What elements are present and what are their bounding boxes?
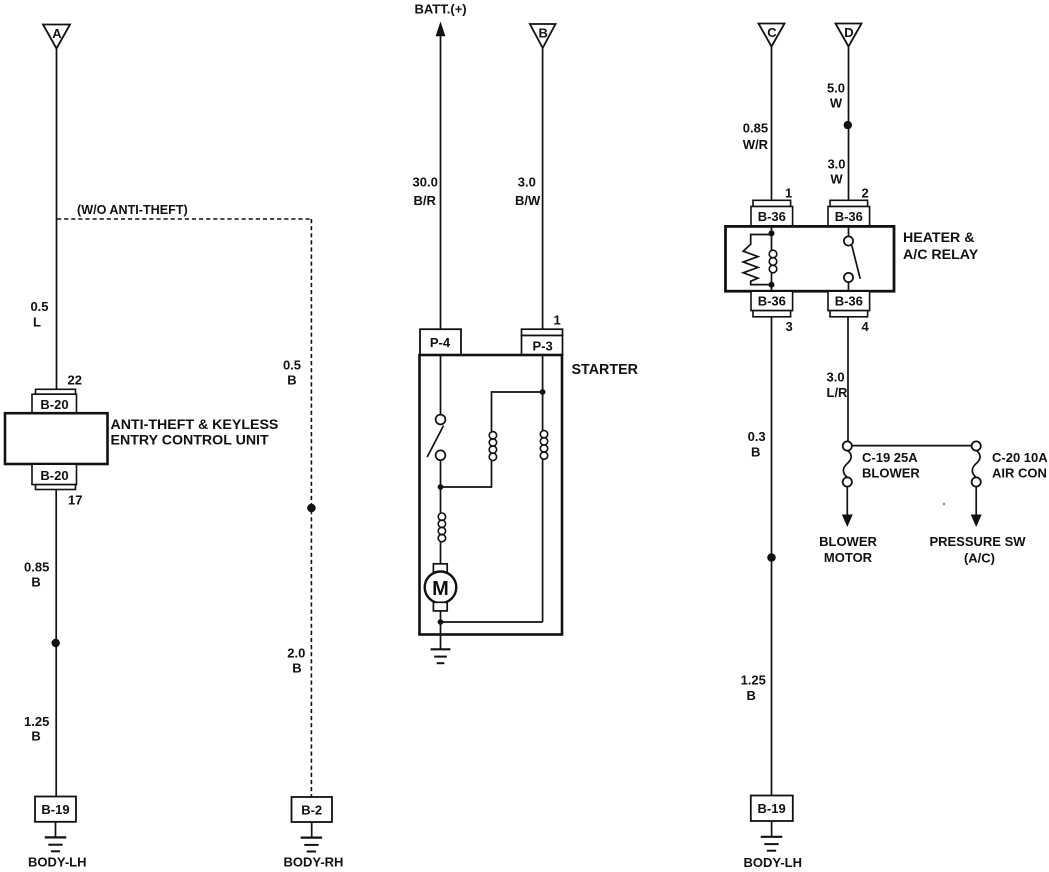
svg-text:0.5: 0.5 bbox=[283, 357, 301, 372]
svg-text:BODY-LH: BODY-LH bbox=[28, 855, 87, 870]
wire P-3 down to pull coil bbox=[542, 355, 544, 431]
connector B-36 (bottom left) bbox=[751, 291, 793, 317]
junction dot wire size change bbox=[844, 121, 852, 129]
relay switch blade bbox=[852, 245, 860, 278]
svg-text:B: B bbox=[292, 661, 301, 676]
svg-text:2: 2 bbox=[862, 186, 869, 201]
wire hold coil up and across to P-3 wire bbox=[492, 392, 543, 432]
wire from connector B down to P-3 bbox=[542, 48, 544, 329]
connector D (triangle) bbox=[836, 24, 862, 47]
svg-text:BODY-LH: BODY-LH bbox=[744, 855, 803, 870]
svg-text:HEATER &: HEATER & bbox=[903, 230, 974, 246]
svg-text:B-36: B-36 bbox=[835, 209, 863, 224]
starter series coil bbox=[438, 513, 445, 542]
arrow to blower motor bbox=[842, 515, 853, 528]
wire label 30.0 B/R bbox=[413, 175, 438, 209]
wire relay coil to B-36 bottom bbox=[771, 285, 773, 291]
label C-20 10A AIR CON bbox=[992, 450, 1048, 481]
svg-text:22: 22 bbox=[68, 373, 82, 388]
wire label 0.5 L bbox=[30, 299, 48, 330]
wire motor to starter ground bbox=[440, 611, 442, 649]
connector B-20 (top) bbox=[32, 389, 77, 413]
junction dot relay coil bottom bbox=[769, 282, 775, 288]
wire label 1.25 B (right) bbox=[741, 673, 766, 703]
junction dot on dashed wire bbox=[307, 504, 316, 513]
junction dot below switch bbox=[438, 484, 444, 490]
dashed wire vertical to B-2 bbox=[310, 219, 312, 797]
starter unit box bbox=[420, 355, 563, 635]
svg-text:3: 3 bbox=[786, 319, 793, 334]
svg-text:AIR CON: AIR CON bbox=[992, 466, 1047, 481]
wire label 0.85 B bbox=[24, 560, 49, 590]
svg-text:B-20: B-20 bbox=[40, 397, 68, 412]
wire B-19 to ground bbox=[55, 822, 57, 837]
svg-text:B-19: B-19 bbox=[41, 802, 69, 817]
svg-text:BLOWER: BLOWER bbox=[862, 466, 920, 481]
svg-text:STARTER: STARTER bbox=[572, 362, 639, 378]
relay switch contact bottom bbox=[844, 273, 853, 282]
svg-text:B-36: B-36 bbox=[835, 294, 863, 309]
svg-text:C-20 10A: C-20 10A bbox=[992, 450, 1048, 465]
relay switch contact top bbox=[844, 236, 853, 245]
connector P-3 bbox=[522, 329, 563, 355]
svg-text:0.85: 0.85 bbox=[24, 560, 49, 575]
svg-text:D: D bbox=[844, 25, 853, 40]
svg-text:B-36: B-36 bbox=[758, 294, 786, 309]
label C-19 25A BLOWER bbox=[862, 450, 920, 481]
wire label 3.0 L/R bbox=[827, 370, 849, 401]
starter hold coil bbox=[489, 432, 496, 461]
svg-text:(W/O ANTI-THEFT): (W/O ANTI-THEFT) bbox=[77, 203, 188, 217]
wire bottom horizontal to motor junction bbox=[441, 621, 543, 623]
svg-text:W: W bbox=[830, 171, 843, 186]
connector B-36 (top left) bbox=[751, 200, 793, 226]
svg-text:3.0: 3.0 bbox=[827, 370, 845, 385]
wire label 3.0 W bbox=[827, 157, 845, 187]
connector P-4 bbox=[420, 329, 461, 355]
fuse C-20 element bbox=[972, 451, 980, 478]
svg-text:1: 1 bbox=[554, 313, 561, 328]
junction dot at motor output bbox=[438, 619, 444, 625]
svg-text:B: B bbox=[751, 444, 760, 459]
svg-text:1.25: 1.25 bbox=[741, 673, 766, 688]
dashed wire horizontal branch W/O ANTI-THEFT bbox=[57, 218, 311, 220]
svg-text:W: W bbox=[830, 95, 843, 110]
wire label 0.5 B (dashed branch) bbox=[283, 357, 301, 387]
svg-text:L: L bbox=[33, 315, 41, 330]
svg-text:M: M bbox=[432, 578, 449, 600]
svg-text:B-2: B-2 bbox=[301, 802, 322, 817]
svg-text:BATT.(+): BATT.(+) bbox=[415, 2, 467, 17]
fuse C-20 top terminal bbox=[972, 441, 981, 450]
svg-text:30.0: 30.0 bbox=[413, 175, 438, 190]
svg-text:B-36: B-36 bbox=[758, 209, 786, 224]
connector B-2 bbox=[292, 797, 333, 822]
svg-text:2.0: 2.0 bbox=[287, 646, 305, 661]
wire pull coil down to bottom junction bbox=[542, 459, 544, 622]
fuse C-19 bottom terminal bbox=[843, 477, 852, 486]
wire B-36 into relay bbox=[771, 226, 773, 234]
relay switch wire from B-36 pin 2 bbox=[848, 226, 850, 237]
svg-text:B-19: B-19 bbox=[758, 801, 786, 816]
connector B-36 (bottom right) bbox=[828, 291, 870, 317]
wire from connector C down to B-36 bbox=[771, 47, 773, 201]
label HEATER & A/C RELAY bbox=[903, 230, 979, 263]
svg-text:B: B bbox=[31, 729, 40, 744]
svg-text:17: 17 bbox=[68, 493, 82, 508]
fuse C-19 top terminal bbox=[843, 441, 852, 450]
connector B-20 (bottom) bbox=[32, 464, 77, 489]
wire switch junction to series coil bbox=[440, 487, 442, 513]
svg-text:(A/C): (A/C) bbox=[964, 551, 995, 566]
svg-text:PRESSURE SW: PRESSURE SW bbox=[929, 534, 1026, 549]
starter switch contact bottom bbox=[436, 450, 446, 460]
svg-text:0.85: 0.85 bbox=[743, 121, 768, 136]
junction dot on P-3 wire bbox=[540, 389, 546, 395]
svg-text:1.25: 1.25 bbox=[24, 714, 49, 729]
motor brush top bbox=[433, 564, 447, 573]
svg-text:C: C bbox=[767, 25, 777, 40]
motor M body bbox=[425, 572, 457, 604]
wire fuse C-20 to pressure switch arrow bbox=[975, 487, 977, 516]
wire between fuse terminals bbox=[852, 445, 972, 447]
wire switch to junction bbox=[440, 460, 442, 487]
svg-text:BLOWER: BLOWER bbox=[819, 534, 877, 549]
svg-text:A: A bbox=[52, 26, 62, 41]
svg-text:MOTOR: MOTOR bbox=[824, 550, 873, 565]
svg-text:0.3: 0.3 bbox=[748, 429, 766, 444]
connector B (triangle) bbox=[530, 24, 556, 48]
wire label 3.0 B/W bbox=[515, 175, 541, 209]
svg-text:B/W: B/W bbox=[515, 193, 541, 208]
fuse C-20 bottom terminal bbox=[972, 477, 981, 486]
wire relay switch to B-36 pin 4 bbox=[848, 282, 850, 291]
svg-text:P-4: P-4 bbox=[430, 335, 451, 350]
arrow up to BATT.(+) bbox=[436, 22, 446, 37]
wire from connector A down to B-20 bbox=[56, 49, 58, 390]
connector A (triangle) bbox=[43, 25, 70, 49]
ground BODY-LH left bbox=[45, 837, 67, 851]
svg-text:B: B bbox=[539, 26, 548, 41]
svg-text:1: 1 bbox=[785, 186, 792, 201]
label ANTI-THEFT & KEYLESS ENTRY CONTROL UNIT bbox=[111, 417, 279, 449]
wire P-4 to switch contact bbox=[440, 355, 442, 414]
ground BODY-LH right bbox=[761, 837, 783, 851]
wire label 0.85 W/R bbox=[743, 121, 769, 153]
connector B-19 (left) bbox=[35, 797, 76, 822]
svg-text:B/R: B/R bbox=[414, 193, 437, 208]
fuse C-19 element bbox=[843, 451, 851, 478]
wire label 5.0 W bbox=[827, 81, 845, 111]
wire from B-20 down to B-19 bbox=[55, 490, 57, 797]
connector C (triangle) bbox=[759, 24, 785, 47]
junction dot on right ground wire bbox=[767, 553, 776, 562]
svg-text:A/C RELAY: A/C RELAY bbox=[903, 247, 979, 263]
svg-text:5.0: 5.0 bbox=[827, 81, 845, 96]
svg-text:4: 4 bbox=[862, 319, 870, 334]
wire BATT down to P-4 bbox=[440, 35, 442, 329]
starter pull-in coil bbox=[540, 431, 547, 460]
wire B-36 pin 3 down to B-19 bbox=[771, 317, 773, 796]
starter switch contact top bbox=[436, 415, 446, 425]
relay coil branch bbox=[769, 233, 777, 284]
wire label 2.0 B bbox=[287, 646, 305, 676]
wire B-36 pin 4 down to fuses bbox=[847, 317, 849, 442]
svg-text:ANTI-THEFT & KEYLESS: ANTI-THEFT & KEYLESS bbox=[111, 417, 279, 433]
label PRESSURE SW (A/C) bbox=[929, 534, 1026, 566]
arrow to pressure switch bbox=[971, 515, 982, 528]
svg-text:B: B bbox=[747, 688, 756, 703]
svg-text:3.0: 3.0 bbox=[518, 175, 536, 190]
svg-text:0.5: 0.5 bbox=[30, 299, 48, 314]
wire label 0.3 B bbox=[748, 429, 766, 459]
ground starter bbox=[431, 649, 451, 663]
label BLOWER MOTOR bbox=[819, 534, 877, 565]
scan speck bbox=[943, 503, 946, 506]
wire label 1.25 B bbox=[24, 714, 49, 744]
connector B-19 (right) bbox=[751, 796, 793, 822]
connector B-36 (top right) bbox=[828, 200, 870, 226]
svg-text:B: B bbox=[31, 575, 40, 590]
svg-text:B: B bbox=[287, 372, 296, 387]
wire junction to hold coil bbox=[441, 461, 492, 488]
wire B-19 to ground (right) bbox=[771, 821, 773, 837]
motor brush bottom bbox=[433, 602, 447, 611]
svg-text:ENTRY CONTROL UNIT: ENTRY CONTROL UNIT bbox=[111, 433, 270, 449]
junction dot on left wire bbox=[52, 639, 60, 647]
wire from connector D down to B-36 bbox=[848, 47, 850, 201]
wire fuse C-19 to blower motor arrow bbox=[846, 487, 848, 516]
svg-text:3.0: 3.0 bbox=[827, 157, 845, 172]
svg-text:BODY-RH: BODY-RH bbox=[284, 855, 344, 870]
junction dot relay coil top bbox=[769, 230, 775, 236]
svg-text:P-3: P-3 bbox=[532, 338, 552, 353]
wire B-2 to ground bbox=[311, 822, 313, 837]
relay resistor branch bbox=[743, 235, 771, 285]
svg-text:W/R: W/R bbox=[743, 137, 769, 152]
ground BODY-RH bbox=[301, 838, 323, 852]
heater & A/C relay box bbox=[726, 226, 895, 291]
svg-text:C-19 25A: C-19 25A bbox=[862, 450, 918, 465]
anti-theft control unit U1 box bbox=[5, 413, 108, 464]
starter switch blade bbox=[427, 426, 443, 457]
wire coil to motor bbox=[440, 542, 442, 564]
svg-text:L/R: L/R bbox=[827, 385, 849, 400]
svg-text:B-20: B-20 bbox=[40, 468, 68, 483]
